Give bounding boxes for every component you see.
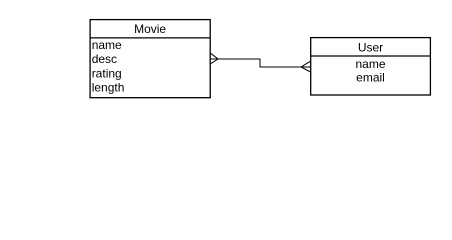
svg-text:name: name (355, 57, 385, 71)
svg-text:length: length (92, 81, 125, 95)
svg-text:desc: desc (92, 52, 117, 66)
svg-text:Movie: Movie (134, 22, 166, 36)
svg-text:email: email (356, 71, 385, 85)
svg-text:User: User (358, 40, 383, 54)
svg-text:name: name (92, 38, 122, 52)
svg-text:rating: rating (92, 67, 122, 81)
